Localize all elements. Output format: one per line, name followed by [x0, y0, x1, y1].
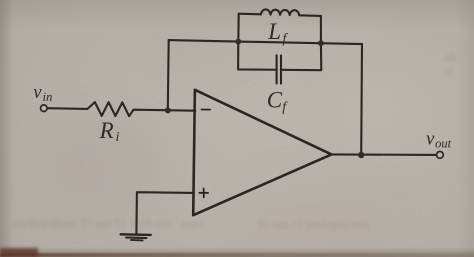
svg-text:f: f [283, 31, 289, 46]
svg-text:in: in [43, 90, 53, 104]
svg-text:L: L [267, 19, 281, 44]
svg-text:v: v [426, 129, 435, 149]
svg-text:v: v [33, 83, 42, 103]
svg-text:out: out [435, 137, 452, 151]
svg-text:f: f [282, 100, 288, 115]
svg-text:i: i [116, 130, 120, 145]
svg-text:R: R [99, 118, 114, 143]
svg-text:C: C [267, 88, 283, 113]
